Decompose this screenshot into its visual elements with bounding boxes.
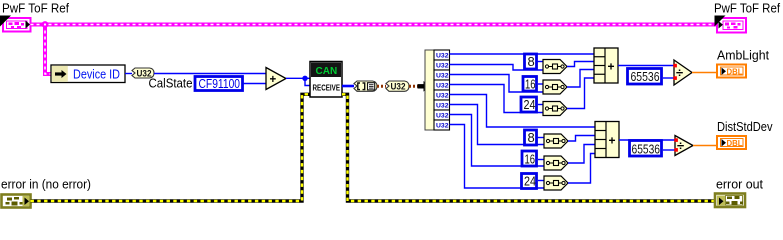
svg-text:+: + <box>270 74 277 86</box>
control terminal PwF ToF Ref (left) <box>0 16 31 32</box>
svg-text:U32: U32 <box>436 113 449 120</box>
svg-text:error in (no error): error in (no error) <box>1 177 91 192</box>
divide function (bottom) <box>674 136 693 156</box>
wire shift1 to top add in2 <box>567 62 594 67</box>
svg-text:DBL: DBL <box>727 67 743 77</box>
wire shift2 to top add in3 <box>567 70 594 88</box>
wire cell4 to shift3 <box>450 85 544 113</box>
wire 16 to shift5 <box>538 159 544 161</box>
refnum wire branch down to Device ID <box>45 25 51 75</box>
svg-text:U32: U32 <box>436 53 449 60</box>
svg-text:24: 24 <box>524 174 536 189</box>
wire cell5 to bottom add in1 <box>450 95 596 128</box>
error in terminal <box>2 195 31 208</box>
svg-text:÷: ÷ <box>676 65 683 80</box>
array-to-cluster bubble <box>354 81 377 91</box>
svg-text:DBL: DBL <box>727 138 743 148</box>
wire cell1 to top add in1 <box>450 53 595 55</box>
logical shift 5 <box>544 156 568 170</box>
svg-text:PwF ToF Ref: PwF ToF Ref <box>2 1 69 16</box>
DBL wire to AmbLight <box>692 72 716 74</box>
svg-text:AmbLight: AmbLight <box>717 48 769 63</box>
compound arithmetic add (top) <box>594 48 618 83</box>
logical shift 1 <box>543 60 567 74</box>
DBL wire to DistStdDev <box>693 145 716 147</box>
svg-text:Device ID: Device ID <box>73 67 120 82</box>
logical shift 2 <box>543 80 567 94</box>
svg-text:16: 16 <box>525 76 536 91</box>
wire add to CAN Receive <box>286 77 310 79</box>
svg-text:65536: 65536 <box>631 70 660 84</box>
svg-text:CAN: CAN <box>316 66 338 77</box>
wire shift3 to top add in4 <box>567 78 594 109</box>
svg-text:PwF ToF Ref: PwF ToF Ref <box>714 1 780 16</box>
CAN Receive VI <box>310 62 342 98</box>
svg-text:error out: error out <box>716 177 763 192</box>
wire cell6 to shift4 <box>450 105 545 145</box>
svg-text:+: + <box>608 59 615 73</box>
refnum wire junction <box>42 21 49 28</box>
svg-text:U32: U32 <box>436 123 449 130</box>
svg-text:65536: 65536 <box>632 142 661 156</box>
junction dot <box>302 76 307 81</box>
wire 24 to shift3 <box>538 104 543 106</box>
svg-text:CF91100: CF91100 <box>199 77 241 91</box>
wire Device ID to U32 conversion <box>125 73 132 75</box>
svg-text:24: 24 <box>524 97 536 112</box>
svg-text:U32: U32 <box>436 73 449 80</box>
wire cell2 to shift1 <box>450 65 544 71</box>
cluster wire <box>377 85 386 88</box>
wire cell8 to shift6 <box>450 125 545 189</box>
compound arithmetic add (bottom) <box>595 122 619 158</box>
constant 16 (top) <box>523 76 537 91</box>
svg-text:DistStdDev: DistStdDev <box>717 119 773 134</box>
constant 16 (bottom) <box>522 151 537 166</box>
cluster wire <box>409 85 418 88</box>
byte array wire CAN to array-to-cluster <box>342 85 354 88</box>
svg-text:U32: U32 <box>436 83 449 90</box>
svg-text:RECEIVE: RECEIVE <box>313 83 341 92</box>
constant 8 (bottom) <box>525 130 537 145</box>
wire shift6 to bottom add in4 <box>568 154 595 184</box>
wire 8 to shift4 <box>537 137 544 139</box>
wire 16 to shift2 <box>538 83 543 85</box>
indicator DistStdDev DBL <box>717 136 746 149</box>
svg-text:÷: ÷ <box>677 138 684 153</box>
svg-text:U32: U32 <box>436 63 449 70</box>
constant 24 (bottom) <box>522 174 537 189</box>
svg-text:U32: U32 <box>391 82 406 92</box>
svg-text:+: + <box>609 133 616 147</box>
logical shift 4 <box>544 134 568 148</box>
wire shift4 to bottom add in2 <box>568 136 595 142</box>
constant 65536 (bottom) <box>630 141 662 157</box>
svg-text:CalState: CalState <box>149 76 193 91</box>
svg-text:8: 8 <box>528 54 535 69</box>
refnum wire main run <box>31 23 717 27</box>
wire 65536 to divide <box>663 149 675 151</box>
error out terminal <box>715 194 745 208</box>
svg-text:U32: U32 <box>436 103 449 110</box>
unbundle node <box>425 50 450 130</box>
conversion bubble U32 (before unbundle) <box>386 81 409 92</box>
wire top add to divide <box>618 65 674 67</box>
logical shift 3 <box>543 102 567 116</box>
indicator AmbLight DBL <box>717 65 746 78</box>
svg-text:16: 16 <box>525 151 536 166</box>
constant 65536 (top) <box>628 69 662 85</box>
error wire in run <box>31 94 311 201</box>
error wire out run <box>342 94 714 201</box>
wire 65536 to divide <box>663 77 674 79</box>
indicator terminal PwF ToF Ref (right) <box>715 16 747 33</box>
wire U32 to add top input <box>154 73 266 75</box>
constant 8 (top) <box>525 54 537 69</box>
divide function (top) <box>673 60 692 85</box>
svg-text:8: 8 <box>528 130 535 145</box>
wire cell3 to shift2 <box>450 75 544 93</box>
wire cell7 to shift5 <box>450 115 545 167</box>
constant 24 (top) <box>521 97 537 112</box>
wire 8 to shift1 <box>537 61 543 63</box>
svg-text:U32: U32 <box>436 93 449 100</box>
property node Device ID <box>51 65 125 83</box>
numeric constant CF91100 <box>195 77 243 91</box>
conversion bubble U32 (after Device ID) <box>132 68 154 78</box>
unbundle input arrow <box>418 81 431 92</box>
wire bottom add to divide <box>619 139 675 141</box>
wire branch to second input <box>305 78 310 85</box>
wire shift5 to bottom add in3 <box>568 145 595 164</box>
add function <box>266 68 286 90</box>
wire CF91100 to add bottom input <box>244 83 267 85</box>
wire 24 to shift6 <box>538 180 544 182</box>
logical shift 6 <box>544 176 568 190</box>
